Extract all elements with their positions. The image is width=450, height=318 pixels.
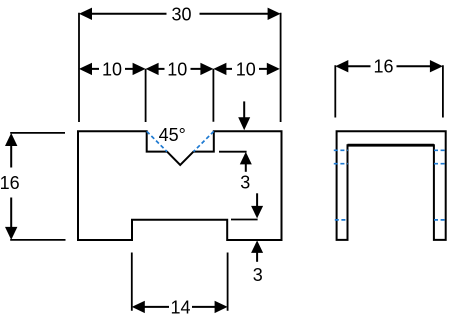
hidden line right wall row 1: [434, 149, 447, 151]
hidden line left wall row 2: [334, 163, 348, 165]
dimension 3 upper (v-recess depth): [219, 101, 252, 192]
svg-text:3: 3: [240, 173, 250, 193]
svg-text:10: 10: [167, 59, 187, 79]
dimension 30 top width: [79, 4, 281, 122]
hidden line right wall row 2: [434, 163, 447, 165]
dimension 3 lower (bottom notch depth): [231, 193, 263, 285]
dimension 16 side view width: [335, 57, 443, 118]
construction line right (45 deg dashed): [194, 131, 214, 151]
hidden line right wall row 3: [434, 219, 447, 221]
svg-text:16: 16: [0, 173, 20, 193]
hidden line left wall row 1: [334, 149, 348, 151]
dimension 10 middle segment: [146, 59, 214, 79]
dimension 14 bottom notch width: [132, 253, 228, 318]
svg-text:30: 30: [171, 4, 191, 24]
side view outline: [337, 131, 446, 240]
front view outline: [78, 131, 282, 240]
dimension 10 right segment: [213, 59, 279, 79]
svg-text:3: 3: [253, 265, 263, 285]
hidden line left wall row 3: [335, 219, 348, 221]
dimension 10 left segment: [79, 59, 213, 122]
svg-text:16: 16: [373, 57, 393, 77]
dimension 16 left height: [0, 133, 66, 240]
construction line left (45 deg dashed): [147, 131, 167, 151]
svg-text:14: 14: [170, 297, 190, 317]
svg-text:45°: 45°: [159, 125, 186, 145]
svg-text:10: 10: [102, 59, 122, 79]
svg-text:10: 10: [236, 59, 256, 79]
side view inner top edge (thick): [348, 144, 434, 147]
